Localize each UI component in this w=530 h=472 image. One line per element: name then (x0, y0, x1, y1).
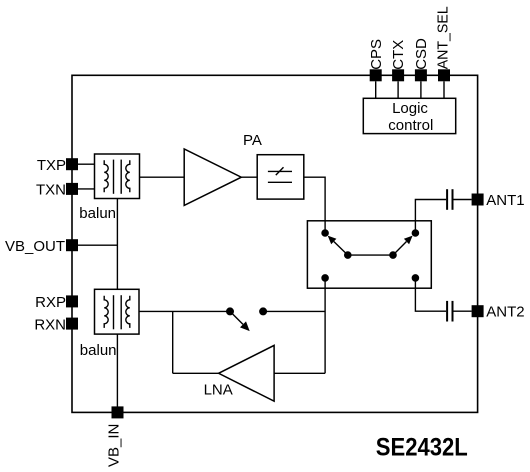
coupler U2 symbol (268, 170, 292, 172)
pin VB_OUT (66, 239, 78, 251)
wire coupler to switch (304, 177, 325, 233)
wire LNA output branch (172, 311, 174, 373)
coupler U2 box (257, 155, 304, 199)
wire bypass to LNA input node (263, 310, 325, 312)
svg-text:ANT2: ANT2 (486, 304, 524, 321)
wire C2 to ANT2 (454, 310, 472, 312)
svg-text:balun: balun (79, 205, 116, 222)
wire C1 to ANT1 (454, 199, 472, 201)
switch S1 box (307, 221, 431, 288)
pin CTX (392, 69, 404, 81)
svg-text:CSD: CSD (413, 38, 430, 70)
pin TXN (66, 183, 78, 195)
svg-text:ANT_SEL: ANT_SEL (434, 6, 451, 69)
pin RXN (66, 318, 78, 330)
node S1 mid-right (390, 252, 396, 258)
wire TXP stub (78, 163, 95, 165)
capacitor C1 (446, 189, 448, 210)
svg-text:VB_IN: VB_IN (106, 424, 123, 467)
balun T2 left winding (104, 296, 108, 328)
wire LNA output (173, 372, 219, 374)
svg-text:VB_OUT: VB_OUT (5, 238, 65, 255)
balun T2 box (95, 289, 140, 334)
pin TXP (66, 158, 78, 170)
wire VB_OUT (78, 244, 117, 246)
svg-text:Logic: Logic (392, 100, 428, 117)
wire ANT1 branch (415, 200, 446, 234)
capacitor C2 (446, 301, 448, 322)
balun T2 core (113, 295, 115, 329)
wire PA to coupler (241, 176, 257, 178)
node S1 bottom-left (322, 275, 328, 281)
balun T2 right winding (126, 296, 130, 328)
wire CTX lead (397, 81, 399, 98)
pin RXP (66, 295, 78, 307)
op-amp PA triangle (184, 149, 241, 205)
pin CSD (415, 69, 427, 81)
node S1 mid-left (345, 252, 351, 258)
svg-text:RXN: RXN (34, 316, 66, 333)
node S1 top-left (322, 230, 328, 236)
wire T2 tap to VB_IN (116, 334, 118, 412)
balun T1 box (95, 154, 140, 199)
svg-text:control: control (388, 117, 433, 134)
op-amp LNA triangle (219, 345, 275, 401)
svg-text:TXP: TXP (37, 157, 66, 174)
pin ANT_SEL (438, 69, 450, 81)
balun T1 right winding (126, 160, 130, 192)
wire balun T1 to PA (140, 176, 185, 178)
svg-text:ANT1: ANT1 (486, 192, 524, 209)
svg-text:TXN: TXN (36, 182, 66, 199)
switch S2 bypass arm (230, 311, 243, 324)
node S1 top-right (412, 230, 418, 236)
balun T1 left winding (104, 160, 108, 192)
logic control U1 (363, 98, 455, 133)
pin ANT1 (472, 194, 484, 206)
wire S1 common bar (348, 254, 393, 256)
wire balun T2 to bypass switch (139, 310, 230, 312)
pin ANT2 (472, 305, 484, 317)
svg-text:SE2432L: SE2432L (376, 434, 468, 462)
switch S1 left arm (334, 242, 348, 256)
svg-text:PA: PA (243, 132, 262, 149)
svg-text:LNA: LNA (204, 382, 233, 399)
wire ANT_SEL lead (443, 81, 445, 98)
svg-text:CTX: CTX (390, 40, 407, 70)
wire LNA input (274, 372, 325, 374)
switch S1 right arm (393, 242, 407, 256)
wire TXN stub (78, 188, 95, 190)
node bypass right (260, 308, 267, 315)
wire CPS lead (375, 81, 377, 98)
pin CPS (370, 69, 382, 81)
pin VB_IN (112, 406, 124, 418)
balun T1 core (113, 160, 115, 194)
wire ANT2 branch (415, 278, 446, 311)
wire T1 center tap (116, 199, 118, 290)
node S1 bottom-right (412, 275, 418, 281)
wire CSD lead (420, 81, 422, 98)
svg-text:RXP: RXP (35, 294, 66, 311)
device outline box (72, 75, 478, 412)
wire switch RX branch (324, 278, 326, 373)
svg-text:balun: balun (80, 342, 117, 359)
node bypass left (227, 308, 234, 315)
svg-text:CPS: CPS (368, 39, 385, 70)
